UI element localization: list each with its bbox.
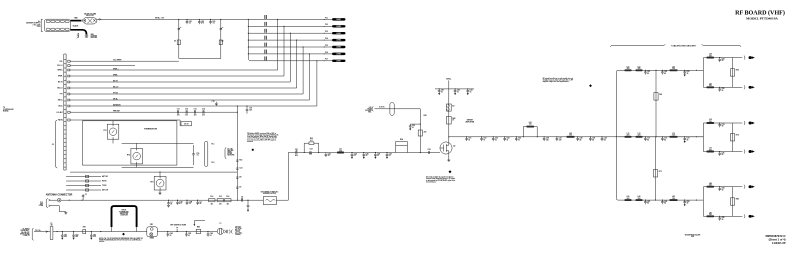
pin box J2-2 — [68, 75, 70, 77]
svg-text:DRIVER: DRIVER — [467, 120, 474, 122]
output connector OUT61 — [744, 85, 755, 89]
wire wire fanout 6 — [70, 99, 309, 101]
wire wire drop 6 — [308, 54, 310, 100]
capacitor C61 — [644, 70, 647, 74]
wire wire drop 4 — [296, 40, 298, 88]
chassis ground marks — [77, 33, 79, 38]
svg-text:7 DBA SPLITTER CIRCUITRY: 7 DBA SPLITTER CIRCUITRY — [671, 44, 697, 47]
svg-text:R75: R75 — [736, 134, 739, 136]
value label C22 value — [310, 149, 313, 151]
module input power coupler — [112, 206, 137, 227]
pin contact P1-2 — [49, 205, 51, 207]
value label E2 value — [452, 106, 454, 108]
value label C25 value — [366, 154, 369, 158]
node junction splitter bus — [616, 136, 617, 137]
wire wire branch7 main — [619, 136, 704, 138]
svg-text:SWITCH S1: SWITCH S1 — [86, 15, 94, 17]
capacitor C30 — [409, 124, 412, 130]
node junction out2 C57 — [556, 136, 557, 137]
wire wire fanout 2 — [70, 75, 284, 77]
node series node line 3 — [323, 32, 326, 35]
wire ladder line 7 — [251, 60, 332, 62]
svg-text:100: 100 — [529, 124, 532, 126]
pin box J2 aux3 — [68, 119, 70, 121]
node junction ant 2 — [82, 200, 83, 201]
resistor R65 — [730, 69, 734, 76]
svg-text:L62: L62 — [638, 66, 641, 68]
node junction b7 4 — [696, 136, 697, 137]
svg-text:68P81087E72-O: 68P81087E72-O — [765, 234, 785, 238]
resistor filter FL4 — [225, 199, 231, 202]
capacitor C63 — [209, 19, 212, 24]
resistor R26 — [418, 130, 422, 136]
svg-text:R71: R71 — [659, 171, 662, 173]
pin box J2-3 — [68, 81, 70, 83]
wire wire drop 2 — [283, 26, 285, 76]
node junction gate node — [420, 152, 421, 153]
pin contact b+ — [46, 231, 48, 233]
node junction top cap 2 — [199, 19, 200, 20]
svg-text:SPKR+: SPKR+ — [58, 70, 63, 72]
svg-text:18: 18 — [170, 204, 172, 206]
node series node line 1 — [323, 18, 326, 21]
value label C43 value — [470, 89, 473, 94]
capacitor C22 — [310, 151, 311, 154]
wire wire ant in a — [51, 199, 58, 201]
value label C22 value — [309, 154, 312, 156]
value label C61 value — [189, 21, 192, 25]
capacitor C21 — [296, 151, 297, 154]
wire ladder line 4 — [248, 39, 332, 41]
value label C23 value — [328, 154, 331, 158]
svg-text:01: 01 — [186, 110, 188, 112]
value label C86 value — [210, 233, 213, 237]
svg-text:68: 68 — [604, 139, 606, 141]
svg-text:SPKR -: SPKR - — [113, 75, 119, 77]
wire source ground — [448, 154, 450, 160]
svg-text:01: 01 — [377, 155, 379, 157]
inductor L74 — [707, 122, 715, 124]
label label 3dB pad — [227, 148, 234, 156]
value label R61 value — [659, 94, 662, 96]
node junction in2 — [318, 152, 319, 153]
value label L75 value — [709, 148, 712, 152]
svg-text:39: 39 — [687, 139, 689, 141]
capacitor C24 — [351, 153, 354, 159]
ground Q1 source — [447, 160, 450, 162]
node junction b8 1 — [645, 200, 646, 201]
value label RT3 value — [150, 182, 153, 184]
capacitor C52 — [480, 137, 483, 141]
value label D9 value — [239, 177, 241, 179]
node junction ant 3 — [168, 200, 169, 201]
capacitor C27 — [386, 153, 389, 159]
value label C2 value — [170, 202, 172, 206]
diode/part mark D7 — [236, 187, 238, 188]
svg-text:01: 01 — [518, 139, 520, 141]
value label C81 value — [647, 201, 650, 205]
svg-text:BUS+: BUS+ — [59, 106, 63, 108]
node junction b+ C83 — [91, 231, 92, 232]
inductor L65 — [707, 86, 715, 88]
node junction top cap 1 — [186, 19, 187, 20]
diode/part mark C32 — [236, 168, 238, 169]
capacitor C15 — [192, 145, 195, 165]
svg-text:L85: L85 — [709, 212, 712, 214]
capacitor C53 — [492, 137, 495, 141]
svg-text:TP: TP — [176, 227, 178, 229]
svg-text:18: 18 — [722, 189, 724, 191]
wire wire drop 5 — [302, 47, 304, 94]
capacitor C74 — [203, 111, 204, 114]
resistor R85 — [196, 229, 200, 233]
svg-text:blocked.: blocked. — [247, 141, 253, 143]
node junction b7 1 — [645, 136, 646, 137]
node junction b8 2 — [662, 200, 663, 201]
brace splitter right — [702, 44, 741, 46]
svg-text:220: 220 — [627, 135, 630, 137]
capacitor C72 — [661, 137, 664, 141]
svg-text:L61: L61 — [627, 66, 630, 68]
resistor R75 — [730, 134, 734, 141]
svg-text:C51: C51 — [468, 138, 471, 140]
capacitor C81 — [61, 232, 64, 240]
svg-text:INDICTOR/: INDICTOR/ — [120, 213, 128, 215]
label label board interconnect — [3, 107, 14, 113]
svg-text:68: 68 — [580, 139, 582, 141]
value label C26 value — [377, 154, 380, 158]
node junction det C84 — [167, 231, 168, 232]
resistor R24 bypass — [396, 142, 408, 146]
thermistor RT2 — [131, 148, 143, 164]
inductor L61 — [625, 69, 632, 71]
node junction c30 — [420, 124, 421, 125]
capacitor C73 — [683, 137, 686, 143]
resistor R61 — [654, 93, 658, 101]
node junction lvl cross — [237, 112, 238, 113]
svg-text:LINE 1: LINE 1 — [336, 19, 341, 21]
inductor L21 — [337, 152, 344, 154]
value label C74 value — [202, 108, 205, 113]
value label CR1 top — [150, 224, 153, 226]
svg-text:C62: C62 — [201, 21, 204, 23]
value label C59 value — [592, 138, 595, 142]
node junction out2 C56 — [544, 136, 545, 137]
wire top B+ supply line — [101, 18, 248, 20]
node junction bus line 5 — [248, 46, 249, 47]
node junction ib a2 — [655, 136, 656, 137]
value label C73 value — [687, 138, 690, 142]
net name label line 1 — [264, 15, 267, 19]
ferrite bead E1 — [390, 102, 394, 115]
value label C82 value — [664, 201, 667, 205]
svg-text:RT2: RT2 — [127, 155, 130, 157]
svg-text:150: 150 — [249, 109, 252, 111]
capacitor C43 — [467, 89, 470, 95]
node series node line 6 — [323, 52, 326, 55]
capacitor C82 — [661, 200, 664, 204]
inductor L73 — [670, 136, 678, 138]
capacitor C76 — [246, 106, 249, 114]
wire wire fanout 4 — [70, 87, 297, 89]
value label R26b value — [424, 132, 427, 134]
ground P1 shield — [64, 213, 67, 215]
wire wire therm mid — [122, 142, 194, 144]
capacitor C2B — [186, 200, 189, 205]
node junction bus line 1 — [248, 19, 249, 20]
wire wire sub71 line — [703, 151, 742, 153]
value label C84 value — [170, 232, 173, 237]
detector CR1 package — [147, 227, 158, 237]
value label C72 value — [664, 138, 667, 142]
svg-text:F1: F1 — [51, 223, 53, 225]
wire wire DET OUT — [66, 189, 101, 191]
svg-text:82: 82 — [647, 73, 649, 75]
value label L64 value — [709, 53, 712, 58]
wire loop B+ routing — [179, 19, 221, 58]
node junction out C54 — [504, 136, 505, 137]
value label C24 value — [354, 153, 357, 158]
crystal filter FL5 — [263, 197, 276, 205]
svg-text:MIC LO: MIC LO — [113, 87, 119, 89]
svg-text:C57: C57 — [559, 138, 562, 140]
value label D2 value — [221, 41, 223, 43]
svg-text:18: 18 — [722, 219, 724, 221]
value label R42 value — [452, 117, 455, 122]
node junction b6 1 — [645, 70, 646, 71]
inductor L52 — [567, 136, 575, 138]
node junction bus line 3 — [248, 33, 249, 34]
inductor L84 — [707, 186, 715, 188]
svg-text:R61: R61 — [659, 94, 662, 96]
capacitor C4 — [242, 199, 243, 202]
svg-text:C21: C21 — [295, 149, 298, 151]
capacitor C82 — [72, 232, 75, 240]
wire wire aux1 stub — [70, 60, 179, 62]
wire wire control line lvl — [70, 111, 237, 113]
svg-text:220: 220 — [638, 198, 641, 200]
wire wire aux1b stub — [70, 65, 135, 67]
svg-text:R81: R81 — [83, 226, 86, 228]
wire control feed vertical — [236, 106, 238, 200]
svg-text:01: 01 — [177, 110, 179, 112]
svg-text:C82: C82 — [664, 201, 667, 203]
node junction sub60 — [719, 57, 720, 58]
capacitor C85 — [718, 216, 721, 220]
svg-text:C86: C86 — [210, 233, 213, 235]
resistor R71 — [653, 170, 657, 178]
wire wire balance R8 link — [732, 187, 734, 217]
wire wire balance R6 link — [732, 58, 734, 88]
node junction bus line 2 — [248, 26, 249, 27]
wire wire split6 vertical — [702, 58, 704, 88]
value label C60 value — [604, 138, 607, 142]
output connector OUT70 — [744, 121, 755, 125]
svg-text:P5-7: P5-7 — [325, 59, 328, 61]
capacitor C84 — [167, 232, 170, 237]
thermistor RT1 — [107, 124, 119, 139]
svg-text:L73: L73 — [672, 133, 675, 135]
svg-text:RX EN: RX EN — [102, 181, 106, 183]
value label L62 value — [638, 66, 641, 70]
svg-text:PTT: PTT — [60, 94, 63, 96]
capacitor C71 — [644, 137, 647, 141]
value label C55 value — [518, 138, 521, 142]
svg-text:7.5V +20%: 7.5V +20% — [33, 24, 41, 26]
label note splitter feed — [543, 77, 574, 83]
connector J2 strip — [64, 54, 66, 170]
svg-text:DET OUT: DET OUT — [102, 190, 108, 192]
node junction ant 3c — [186, 200, 187, 201]
arrow to supply line — [97, 19, 102, 20]
wire wire 9v feed — [375, 108, 421, 110]
svg-text:C63: C63 — [687, 71, 690, 73]
svg-text:INPUT: INPUT — [122, 210, 127, 212]
node junction det C85 — [186, 231, 187, 232]
svg-text:C73: C73 — [194, 109, 197, 111]
node junction b+ box — [100, 231, 101, 232]
wire wire interbranch a — [655, 70, 657, 137]
svg-text:150: 150 — [672, 68, 675, 70]
node junction fl7 feed — [237, 105, 238, 106]
svg-text:R31: R31 — [239, 160, 242, 162]
node junction ant 4 — [197, 200, 198, 201]
svg-text:150: 150 — [709, 149, 712, 151]
tank circuit loop — [523, 127, 537, 137]
value label C73 value — [194, 109, 197, 113]
value label L83 value — [672, 196, 675, 200]
net label pill LINE2 — [332, 25, 346, 28]
inductor L62 — [636, 69, 643, 71]
brace splitter left — [610, 44, 665, 46]
value label FL2 top — [210, 196, 213, 198]
node junction b+ C81 — [62, 231, 63, 232]
wire wire sub80 line — [703, 186, 742, 188]
wire wire fanout 7 — [70, 105, 317, 107]
capacitor C25 — [363, 153, 366, 159]
net name label line 3 — [264, 29, 267, 33]
node junction b+ C82 — [73, 231, 74, 232]
output connector OUT81 — [744, 214, 755, 218]
wire ladder line 2 — [248, 25, 332, 27]
value label C30 value — [412, 125, 415, 129]
node junction sub61 — [719, 87, 720, 88]
svg-text:-10%: -10% — [37, 26, 41, 28]
value label RT2 value — [127, 155, 130, 157]
svg-text:C28: C28 — [428, 149, 431, 151]
wire wire p1 pin2 path — [51, 206, 66, 213]
pin box DET OUT — [86, 189, 89, 191]
value label C28 value — [428, 149, 431, 151]
pin box J2-1 — [68, 69, 70, 71]
svg-text:C2: C2 — [170, 202, 172, 204]
thick wire W2 black ground — [71, 30, 87, 34]
label label GND chassis — [91, 34, 97, 39]
svg-text:L52: L52 — [569, 133, 572, 135]
wire wire to xtal filter — [248, 199, 263, 201]
value label R31 value — [239, 160, 242, 162]
node junction out3 C60 — [601, 136, 602, 137]
tp tick — [176, 229, 178, 232]
ferrite bead E2 — [446, 104, 451, 111]
label label input power coupler — [119, 210, 129, 217]
svg-text:FUSE F1: FUSE F1 — [23, 235, 29, 237]
node junction b6 3 — [684, 70, 685, 71]
net name label line 4 — [264, 36, 267, 40]
node junction ant 3b — [177, 200, 178, 201]
value label C85 value — [188, 233, 191, 237]
inductor L81 — [625, 199, 632, 201]
svg-text:C82: C82 — [75, 234, 78, 236]
svg-text:150: 150 — [709, 85, 712, 87]
wire wire fanout 3 — [70, 81, 290, 83]
svg-text:C52: C52 — [483, 138, 486, 140]
value label C51 value — [468, 138, 471, 142]
node junction b8 4 — [696, 200, 697, 201]
svg-text:C71: C71 — [647, 138, 650, 140]
node junction out3 C59 — [590, 136, 591, 137]
svg-text:COUPLER: COUPLER — [120, 215, 128, 217]
net name label line 7 — [264, 56, 267, 60]
value label L21 value — [339, 149, 342, 153]
node junction b+ C43 — [467, 88, 468, 89]
svg-text:01: 01 — [170, 235, 172, 237]
node junction det C86 — [207, 231, 208, 232]
resistor D2 isolation — [219, 40, 222, 45]
svg-text:C53: C53 — [495, 138, 498, 140]
node junction drain tap — [448, 136, 449, 137]
value label L51 value — [529, 122, 532, 126]
wire bus vertical feed — [248, 19, 251, 60]
capacitor C3 — [196, 200, 199, 205]
wire wire TX EN — [66, 185, 101, 187]
svg-text:SIDE: SIDE — [691, 236, 694, 238]
value label FL3 top — [219, 196, 222, 198]
value label FL4 top — [226, 195, 229, 198]
node junction drop line 3 — [290, 33, 291, 34]
capacitor C72 — [186, 111, 187, 114]
value label C2B value — [189, 201, 193, 205]
node junction b6 4 — [696, 70, 697, 71]
value label C1 value — [85, 194, 87, 196]
net label pill LINE3 — [332, 32, 346, 35]
node junction tank b — [537, 136, 538, 137]
node series node line 2 — [323, 25, 326, 28]
svg-text:C72: C72 — [664, 138, 667, 140]
inductor L75 — [707, 151, 715, 153]
wire wire ant sw line — [70, 171, 237, 173]
svg-text:L81: L81 — [627, 196, 630, 198]
wire ladder line 1 — [248, 18, 332, 20]
node junction tank a — [523, 136, 524, 137]
svg-text:01: 01 — [441, 91, 443, 93]
svg-text:.01: .01 — [212, 23, 214, 25]
pin box ANT SW — [86, 175, 89, 177]
capacitor C59 — [589, 137, 592, 141]
label sheet note center — [685, 234, 700, 238]
value label C64 value — [722, 58, 725, 63]
node junction ant 1 — [69, 200, 70, 201]
pin box J2-6 — [68, 99, 70, 101]
svg-text:ANTENNA CONNECTOR: ANTENNA CONNECTOR — [46, 194, 73, 197]
wire wire 9v riser — [419, 109, 421, 153]
inductor L51 — [527, 126, 535, 128]
label note detector output — [235, 226, 242, 236]
value label F1 value — [50, 223, 53, 227]
svg-text:C27: C27 — [389, 154, 392, 156]
svg-text:6.8: 6.8 — [310, 140, 312, 142]
thick wire W1 red B+ — [71, 20, 82, 22]
